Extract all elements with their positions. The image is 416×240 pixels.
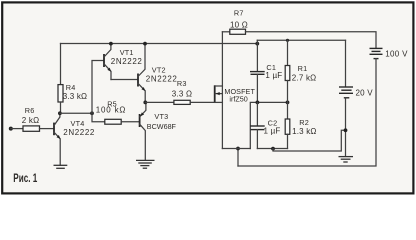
- svg-text:2N2222: 2N2222: [63, 128, 95, 137]
- transistor VT2: [138, 44, 146, 103]
- wire VT1 emitter to VT2 base: [111, 79, 137, 81]
- wire 100V battery down to bottom rail: [238, 59, 376, 166]
- junction bottom link: [271, 147, 275, 151]
- wire R6 to VT4 base: [40, 128, 54, 130]
- svg-text:R1: R1: [298, 64, 308, 73]
- battery GB2 20V: [339, 40, 353, 156]
- svg-text:2N2222: 2N2222: [146, 75, 178, 84]
- wire node B down to R5: [92, 113, 105, 121]
- svg-text:20 V: 20 V: [356, 88, 374, 97]
- resistor R4: [58, 85, 63, 102]
- ground (20V battery): [339, 157, 354, 162]
- junction rail/C1 jog: [255, 42, 259, 46]
- wire R4 bottom to node: [60, 102, 62, 113]
- transistor VT1: [104, 44, 112, 80]
- wire node A to node B: [60, 112, 92, 114]
- svg-text:100 V: 100 V: [385, 49, 408, 58]
- svg-text:VT1: VT1: [120, 48, 134, 57]
- svg-text:irfZ50: irfZ50: [229, 94, 247, 103]
- svg-text:2N2222: 2N2222: [111, 57, 143, 66]
- wire R7 left lead: [222, 31, 229, 33]
- wire rail to 20V battery: [257, 39, 345, 41]
- junction divider mid / R1: [286, 101, 290, 105]
- svg-text:3.3 Ω: 3.3 Ω: [172, 90, 192, 99]
- battery GB1 100V: [370, 48, 383, 58]
- wire source branch to bottom rail: [237, 149, 239, 167]
- node IN terminal: [9, 127, 13, 131]
- svg-text:3.3 kΩ: 3.3 kΩ: [63, 92, 88, 101]
- svg-text:BCW68F: BCW68F: [147, 122, 177, 131]
- svg-text:2.7 kΩ: 2.7 kΩ: [292, 73, 317, 82]
- transistor VT4: [54, 113, 62, 165]
- svg-text:10 Ω: 10 Ω: [230, 21, 248, 30]
- junction R1 top: [286, 39, 289, 42]
- junction 20V minus: [344, 128, 348, 132]
- junction divider mid / C1: [256, 101, 260, 105]
- wire R7 to 100V battery: [246, 32, 377, 48]
- svg-text:R3: R3: [177, 79, 187, 88]
- svg-text:VT2: VT2: [152, 66, 166, 75]
- wire R5 to VT3 base: [121, 121, 139, 123]
- svg-text:100 kΩ: 100 kΩ: [96, 106, 126, 115]
- svg-text:2 kΩ: 2 kΩ: [22, 116, 39, 125]
- ground (VT4 emitter): [54, 165, 68, 168]
- wire MOSFET drain up to R7: [221, 32, 223, 86]
- transistor VT3: [139, 102, 146, 160]
- svg-text:R2: R2: [299, 118, 309, 127]
- ground (VT3 collector): [136, 160, 155, 168]
- svg-text:R7: R7: [234, 8, 244, 17]
- wire node C to R3: [145, 101, 174, 103]
- svg-text:R6: R6: [25, 106, 35, 115]
- svg-text:VT3: VT3: [154, 112, 168, 121]
- svg-text:VT4: VT4: [71, 119, 85, 128]
- resistor R2: [285, 102, 290, 148]
- svg-text:R4: R4: [66, 83, 76, 92]
- svg-text:1 µF: 1 µF: [265, 71, 282, 80]
- capacitor C1: [250, 44, 265, 103]
- node C (VT2/VT3 emitters): [143, 101, 147, 105]
- resistor R1: [285, 40, 290, 102]
- wire bottom link to 20V minus: [273, 130, 346, 151]
- top rail (VT1/VT2 collectors): [61, 43, 258, 45]
- junction VT1 collector: [109, 42, 113, 46]
- wire C2/R2 bottoms: [257, 148, 287, 150]
- svg-text:Рис. 1: Рис. 1: [13, 171, 37, 185]
- svg-text:1.3 kΩ: 1.3 kΩ: [292, 127, 317, 136]
- resistor R3: [174, 100, 190, 104]
- wire rail corner to R4: [60, 44, 62, 85]
- resistor R6: [23, 126, 40, 131]
- wire node B up to VT1 base: [92, 61, 103, 114]
- border frame: [2, 2, 413, 193]
- svg-text:1 µF: 1 µF: [264, 126, 281, 135]
- wire input to R6: [11, 128, 23, 130]
- node A (R4/VT4 collector): [58, 111, 62, 115]
- wire MOSFET source bottom: [222, 148, 250, 150]
- node B (VT1 base / R5): [90, 111, 94, 115]
- capacitor C2: [250, 102, 265, 148]
- MOSFET irfZ50: [215, 85, 223, 103]
- resistor R5: [105, 119, 121, 124]
- wire MOSFET channel: [221, 86, 223, 149]
- wire R3 to MOSFET gate: [190, 101, 215, 103]
- resistor R7: [230, 29, 246, 34]
- wire source up to divider mid node: [250, 102, 287, 148]
- junction VT2 collector: [143, 42, 147, 46]
- junction source branch: [236, 147, 240, 151]
- wire rail jog up: [256, 40, 258, 43]
